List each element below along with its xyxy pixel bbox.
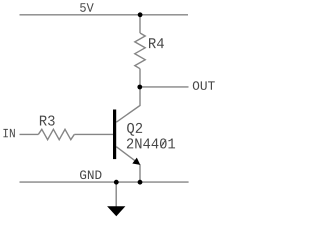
wire: Q2 emitter lead [116,147,139,164]
label 2N4401 (slashed zero) [127,138,175,148]
net label IN [3,129,14,137]
wire: Q2 collector lead [116,87,140,122]
wire: R4 bottom to collector node [139,69,141,87]
label Q2 [127,123,142,136]
Q2 emitter arrowhead [132,158,140,165]
label R3 [40,115,55,125]
wire: emitter to GND rail [139,164,141,182]
junction dot: collector / OUT node [137,85,142,90]
wire: GND rail to ground symbol [115,182,117,206]
net label OUT [193,81,215,90]
ground symbol [107,206,125,216]
junction dot: 5V rail / R4 [138,12,143,17]
wire: collector node to OUT [140,86,189,88]
resistor R4 [135,33,145,69]
transistor Q2 base bar [113,110,116,160]
net label GND [80,170,101,179]
wire: 5V rail to R4 top [139,15,141,33]
label R4 [149,38,164,48]
wire: GND rail [20,181,189,183]
junction dot: emitter / GND rail [138,180,143,185]
wire: IN to R3 [20,133,39,135]
resistor R3 [38,129,74,139]
net label 5V [80,3,94,12]
wire: R3 to Q2 base [74,133,113,135]
junction dot: ground symbol tap [114,180,119,185]
wire: 5V power rail [20,14,189,16]
